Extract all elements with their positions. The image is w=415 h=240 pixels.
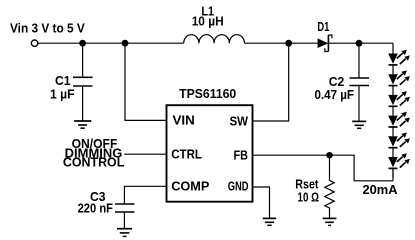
wire: LED string top <box>392 43 394 53</box>
wire: C2 branch <box>358 43 360 78</box>
svg-text:220 nF: 220 nF <box>78 201 114 216</box>
svg-text:SW: SW <box>230 113 249 128</box>
svg-text:CONTROL: CONTROL <box>63 155 125 170</box>
wire: FB net <box>253 155 394 181</box>
ground below C2 <box>352 121 366 128</box>
wire: diode to LED corner <box>328 42 393 44</box>
capacitor C1 <box>73 76 93 78</box>
wire: VIN branch <box>125 43 167 120</box>
svg-text:FB: FB <box>234 147 249 162</box>
svg-text:10 Ω: 10 Ω <box>298 189 320 204</box>
wire: SW to top <box>253 43 289 121</box>
wire: terminal to inductor <box>38 42 184 44</box>
wire: CTRL input <box>124 153 166 155</box>
node: SW junction <box>285 40 292 47</box>
inductor L1 <box>184 35 245 44</box>
node: C1 junction <box>79 40 86 47</box>
node: C2 junction <box>356 40 363 47</box>
wire: LED string bottom stub <box>392 168 394 180</box>
svg-text:VIN: VIN <box>173 113 195 128</box>
LED 1 <box>388 50 410 74</box>
LED 5 <box>388 133 410 158</box>
svg-text:GND: GND <box>228 179 249 194</box>
ground below C1 <box>74 121 91 128</box>
svg-text:CTRL: CTRL <box>171 146 202 161</box>
ground below GND pin <box>263 218 276 225</box>
svg-text:COMP: COMP <box>171 178 210 193</box>
svg-text:D1: D1 <box>317 19 329 34</box>
resistor Rset <box>325 155 334 218</box>
svg-text:1 µF: 1 µF <box>50 87 75 102</box>
node: VIN junction <box>122 40 129 47</box>
input terminal Vin <box>31 40 37 46</box>
LED 6 <box>388 153 410 178</box>
node: FB junction <box>326 152 332 158</box>
diode D1 (schottky) <box>318 38 329 48</box>
ground below C3 <box>117 229 132 237</box>
ground below Rset <box>323 218 337 225</box>
svg-text:Vin 3 V to 5 V: Vin 3 V to 5 V <box>10 21 85 36</box>
wire: COMP to C3 <box>124 186 166 204</box>
LED 3 <box>388 91 410 115</box>
capacitor C3 <box>115 203 135 205</box>
wire: C1 branch down <box>82 43 84 77</box>
svg-text:20mA: 20mA <box>363 182 398 197</box>
LED 4 <box>388 112 410 136</box>
svg-text:0.47 µF: 0.47 µF <box>315 87 355 102</box>
LED 2 <box>388 70 410 94</box>
wire: inductor to diode <box>245 42 319 44</box>
wire: GND pin to ground <box>253 187 270 218</box>
IC U1 TPS61160 <box>167 105 253 202</box>
svg-text:10 µH: 10 µH <box>192 13 224 28</box>
svg-text:TPS61160: TPS61160 <box>179 86 236 101</box>
capacitor C2 <box>350 77 370 79</box>
